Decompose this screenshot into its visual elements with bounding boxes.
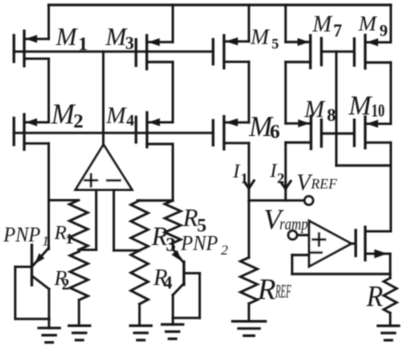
resistor R1: [69, 200, 87, 250]
svg-text:M: M: [105, 103, 127, 129]
wire Vramp to U2 +: [297, 234, 309, 236]
label I1: [232, 161, 248, 188]
wire M5 drain to M6 source: [248, 62, 250, 123]
svg-text:M: M: [358, 12, 378, 36]
transistor M8: [286, 116, 322, 149]
wire Q1 source down: [389, 254, 391, 278]
svg-text:2: 2: [277, 171, 285, 187]
svg-text:8: 8: [327, 105, 336, 125]
op-amp U1: [76, 145, 133, 190]
svg-text:M: M: [55, 24, 78, 51]
svg-text:4: 4: [164, 273, 173, 293]
wire rail drop to M7: [284, 5, 286, 42]
svg-text:5: 5: [272, 37, 279, 53]
transistor M6: [213, 116, 249, 149]
ground under RREF: [233, 321, 266, 335]
transistor M3: [136, 35, 173, 69]
svg-text:M: M: [312, 11, 334, 36]
svg-text:R: R: [366, 280, 383, 313]
wire feedback along bottom: [292, 273, 390, 275]
svg-text:1: 1: [241, 171, 249, 187]
wire cascode bias right: [336, 164, 391, 166]
svg-text:REF: REF: [310, 177, 337, 193]
label VREF: [297, 170, 338, 195]
wire R5 to PNP2: [172, 243, 174, 249]
svg-text:M: M: [105, 24, 128, 51]
label M1: [55, 24, 88, 55]
wire gate line M2 M4 M6: [14, 132, 213, 134]
wire M8 drain down I2: [284, 143, 286, 201]
wire R3 bottom to U1 -: [114, 249, 140, 251]
label R: [366, 280, 383, 313]
wire M7 drain to M8 source: [284, 62, 286, 123]
transistor PNP1: [15, 245, 49, 328]
label R2: [53, 266, 70, 294]
svg-text:REF: REF: [275, 283, 291, 303]
transistor M1: [14, 31, 49, 66]
svg-text:1: 1: [66, 232, 74, 248]
ground under R4: [130, 326, 151, 340]
label R4: [153, 265, 173, 293]
wire VDD rail: [49, 4, 391, 7]
wire node R3 R5: [138, 199, 173, 201]
ground under R: [378, 326, 399, 340]
transistor M2: [14, 114, 49, 149]
wire M4 drain down: [172, 144, 174, 201]
svg-text:ramp: ramp: [280, 215, 309, 234]
wire U1 + input lead: [95, 190, 97, 250]
label M2: [50, 100, 83, 133]
wire U2 out to Q gate: [351, 242, 356, 244]
wire M1 drain to M2 source: [48, 59, 50, 123]
transistor Q1 output NMOS: [356, 227, 391, 260]
ground under PNP2: [162, 324, 183, 338]
label RREF: [257, 273, 292, 306]
wire M6 drain down I1: [248, 143, 250, 200]
label M4: [105, 103, 134, 130]
label R3: [151, 222, 176, 256]
svg-text:PNP: PNP: [180, 231, 218, 255]
svg-text:2: 2: [221, 244, 228, 259]
svg-text:2: 2: [73, 110, 83, 132]
wire R2 top stub: [78, 250, 80, 252]
ground under PNP1: [39, 328, 60, 342]
label M3: [105, 24, 135, 53]
transistor M10: [354, 117, 391, 148]
svg-text:10: 10: [371, 100, 385, 120]
wire rail drop to M9: [390, 5, 392, 42]
svg-text:M: M: [303, 97, 326, 123]
svg-text:2: 2: [62, 277, 70, 294]
transistor M9: [354, 35, 391, 68]
label M9: [358, 12, 388, 41]
svg-text:3: 3: [125, 33, 134, 53]
label M5: [250, 24, 279, 53]
svg-text:M: M: [250, 24, 271, 49]
wire M2 drain down: [48, 143, 50, 249]
label PNP2: [180, 231, 228, 259]
resistor R5: [165, 201, 181, 244]
ground under R2: [69, 326, 90, 340]
transistor PNP2: [172, 249, 200, 324]
svg-text:M: M: [50, 100, 76, 131]
svg-text:6: 6: [270, 121, 280, 143]
label PNP1: [3, 223, 49, 250]
wire M3 drain to M4 source: [172, 62, 174, 122]
wire gate line M8 M10: [321, 132, 354, 134]
svg-text:R: R: [257, 273, 276, 306]
svg-text:4: 4: [126, 113, 134, 130]
label M10: [348, 91, 385, 121]
svg-text:PNP: PNP: [3, 223, 41, 247]
wire R4 to ground: [138, 304, 140, 326]
label R5: [182, 205, 207, 237]
wire feedback down: [291, 255, 293, 274]
wire cascode bias down: [335, 52, 337, 166]
label I2: [269, 160, 285, 187]
svg-text:9: 9: [380, 21, 388, 40]
resistor RREF: [240, 258, 257, 304]
wire U2 - feedback stub: [292, 254, 309, 256]
wire R2 to ground: [78, 300, 80, 326]
transistor M4: [136, 113, 173, 148]
wire rail drop to M3: [172, 5, 174, 42]
label M7: [312, 11, 343, 40]
label M6: [248, 112, 280, 143]
wire R to ground: [389, 313, 391, 326]
svg-text:1: 1: [42, 235, 49, 250]
current arrow I2: [281, 181, 291, 189]
wire M10 drain down to output: [390, 143, 392, 232]
svg-text:R: R: [182, 205, 198, 232]
svg-text:M: M: [348, 91, 373, 121]
svg-text:7: 7: [333, 20, 342, 40]
wire rail drop to M5: [248, 5, 250, 42]
wire M9 drain to M10 source: [390, 63, 392, 124]
wire R1 bottom to U1 +: [79, 249, 97, 251]
op-amp U2: [309, 221, 351, 267]
label R1: [53, 222, 73, 248]
wire RREF top: [248, 200, 250, 257]
wire VREF node line: [249, 199, 304, 201]
wire gate line M7 M9: [321, 50, 354, 52]
transistor M5: [213, 35, 249, 68]
resistor R4: [131, 250, 148, 304]
label Vramp: [264, 204, 309, 236]
resistor R: [384, 278, 397, 313]
transistor M7: [286, 35, 322, 68]
resistor R2: [70, 252, 88, 301]
wire rail drop to M1: [48, 5, 50, 39]
wire op-amp U1 output up: [102, 52, 104, 145]
terminal VREF: [305, 196, 314, 205]
wire node to R1 top: [49, 199, 79, 201]
label M8: [303, 97, 336, 125]
current arrow I1: [244, 181, 254, 189]
wire RREF to ground: [248, 304, 250, 322]
terminal Vramp: [288, 231, 297, 240]
wire U1 - input lead: [113, 190, 115, 251]
wire gate line M1 M3 M5: [14, 50, 213, 52]
resistor R3: [131, 201, 148, 251]
